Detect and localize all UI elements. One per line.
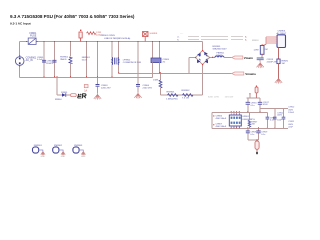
wire drop to bridge top — [202, 42, 204, 52]
varistor RV9901 — [60, 42, 72, 78]
capacitor C9919 — [256, 131, 268, 136]
wire bridge bottom to chain — [161, 65, 203, 96]
wire subcircuit top bar — [246, 97, 260, 99]
mount hole M9903 — [73, 145, 86, 158]
wire bridge left vertex routing — [189, 58, 196, 74]
title text — [10, 14, 135, 19]
svg-text:450V 68uF: 450V 68uF — [216, 118, 227, 120]
svg-text:GND: GND — [81, 156, 86, 158]
svg-text:C9912: C9912 — [288, 107, 295, 109]
resistor R9920 below connector — [277, 48, 289, 79]
svg-text:1M: 1M — [282, 63, 285, 65]
IC U9901 — [229, 112, 255, 128]
svg-text:2200PF: 2200PF — [46, 63, 54, 65]
spark gap SG9901 — [143, 32, 159, 42]
wire top rail L — [20, 41, 203, 43]
svg-text:AC_IN: AC_IN — [26, 59, 33, 62]
fuse F9901 — [26, 32, 38, 45]
svg-text:Vmain: Vmain — [244, 56, 253, 60]
resistor RS9901 — [166, 91, 178, 100]
wire second rail to Vmains — [119, 73, 232, 75]
red junction dots — [44, 41, 162, 77]
resistor RS9902 — [182, 90, 193, 99]
svg-text:LINE FILTER(9RV-5026-A): LINE FILTER(9RV-5026-A) — [104, 37, 130, 40]
svg-text:7.5 1W: 7.5 1W — [182, 97, 190, 99]
svg-text:R9904: R9904 — [55, 99, 62, 101]
svg-text:450V: 450V — [288, 109, 293, 111]
label column right — [288, 107, 295, 129]
resistor R9918 — [252, 40, 268, 56]
svg-text:0.1u: 0.1u — [261, 134, 265, 136]
capacitor C9903 to chassis — [96, 42, 112, 94]
subtitle 9.3-1 AC Input — [10, 21, 31, 25]
svg-text:22uF: 22uF — [288, 127, 293, 129]
svg-text:1A: 1A — [84, 89, 87, 92]
svg-text:1M 1/2W: 1M 1/2W — [225, 96, 235, 98]
svg-text:R9918: R9918 — [252, 40, 259, 42]
wire IC bottom rail — [212, 127, 288, 129]
mount hole M9901 — [33, 145, 46, 158]
legend text rows — [188, 37, 243, 40]
red pin dots IC bottom rail — [231, 127, 284, 128]
capacitor C9907 label — [213, 124, 227, 129]
svg-text:1.6M(1/2W): 1.6M(1/2W) — [166, 98, 178, 100]
connector CN9901 — [276, 31, 287, 48]
mount hole M9902 — [53, 145, 66, 158]
svg-text:0.1u: 0.1u — [270, 120, 274, 122]
svg-text:0.1u: 0.1u — [251, 105, 255, 107]
svg-text:COMMON FILTER: COMMON FILTER — [123, 62, 142, 64]
load text bold (CJK-like glyphs drawn manually) — [78, 94, 86, 98]
chassis ground below R9920 — [275, 79, 282, 84]
svg-text:820K 1/2W: 820K 1/2W — [208, 96, 220, 98]
resistor R9903 vertical — [153, 74, 162, 96]
capacitor C9901 — [37, 42, 46, 78]
svg-text:GBU806 600V: GBU806 600V — [213, 49, 228, 51]
wire riser with pin — [249, 93, 250, 98]
wire left vertical to connector — [19, 42, 21, 57]
svg-text:- - -: - - - — [180, 33, 183, 35]
resistor R9902 red branch — [79, 30, 103, 42]
svg-text:SG9901: SG9901 — [150, 33, 159, 35]
svg-text:2200P 2KV: 2200P 2KV — [267, 62, 279, 64]
svg-text:2200 2KV: 2200 2KV — [143, 87, 153, 89]
capacitor C9904 to chassis — [136, 42, 153, 93]
svg-text:9.3-1 AC Input: 9.3-1 AC Input — [10, 21, 31, 25]
wire connector bottom + bottom rail N — [20, 66, 153, 78]
resistor R9907 column — [248, 112, 258, 128]
chassis ground at C9904 — [134, 92, 141, 99]
ferrite bead FB9901 — [210, 53, 232, 58]
capacitor C9916 — [246, 98, 258, 112]
capacitor C9921 — [266, 112, 277, 128]
wire bus to R9918 — [262, 45, 266, 46]
capacitor C9902 — [46, 42, 57, 78]
svg-text:2200 2KV: 2200 2KV — [101, 87, 111, 89]
capacitor C9913 — [257, 54, 278, 63]
svg-text:C9911: C9911 — [288, 121, 295, 123]
svg-text:RS9902: RS9902 — [182, 90, 191, 92]
wire IC top rail — [212, 111, 268, 113]
svg-text:9.3 A 715G5308 PSU (For 40/55": 9.3 A 715G5308 PSU (For 40/55" 7003 & 50… — [10, 14, 135, 19]
capacitor C9906 label — [213, 115, 227, 120]
red pin dots IC top rail — [231, 111, 261, 112]
svg-text:RS9901: RS9901 — [167, 91, 176, 93]
diode D9901 branch — [55, 78, 76, 101]
svg-text:120uF: 120uF — [288, 112, 294, 114]
choke LF9902 — [112, 42, 141, 78]
svg-text:400V: 400V — [277, 115, 282, 117]
wire IC left vertical — [211, 112, 213, 128]
svg-text:Vmains: Vmains — [245, 72, 256, 76]
capacitor C9917 — [258, 98, 270, 112]
svg-text:GND: GND — [41, 156, 46, 158]
net arrow Vmains — [232, 72, 257, 76]
bridge rectifier BD9901 — [195, 46, 227, 65]
chassis ground at C9903 — [94, 93, 101, 100]
svg-text:5D-9: 5D-9 — [82, 59, 88, 61]
svg-text:2M: 2M — [265, 49, 268, 51]
electrolytic C9920 — [255, 139, 259, 154]
capacitor C9923 — [282, 109, 286, 129]
label LF9901 LINE FILTER — [101, 35, 131, 40]
svg-text:10uF: 10uF — [277, 119, 282, 121]
capacitor C9905 X2 — [151, 42, 170, 78]
chassis ground at C9913 — [257, 62, 264, 69]
electrolytic C9908 — [255, 86, 258, 99]
svg-text:0.1uF: 0.1uF — [37, 59, 43, 61]
svg-text:450V: 450V — [263, 104, 268, 106]
wire right branch rail — [260, 108, 288, 110]
svg-text:FUSE: FUSE — [30, 34, 37, 37]
connector CON9901 AC_IN — [15, 55, 37, 67]
capacitor C9922 — [273, 109, 284, 129]
wire connector pins pink — [266, 37, 277, 45]
svg-text:9N431: 9N431 — [60, 59, 67, 61]
svg-text:0.1u: 0.1u — [250, 134, 254, 136]
thermistor NR9901 wire — [82, 42, 91, 78]
wire bottom cap feeders — [248, 128, 259, 141]
note text gray — [208, 96, 234, 98]
capacitor C9918 — [246, 131, 257, 136]
svg-text:400V: 400V — [288, 124, 293, 126]
fuse F9902 small — [84, 85, 88, 93]
svg-text:GND: GND — [61, 156, 66, 158]
net arrow Vmain — [232, 56, 253, 60]
